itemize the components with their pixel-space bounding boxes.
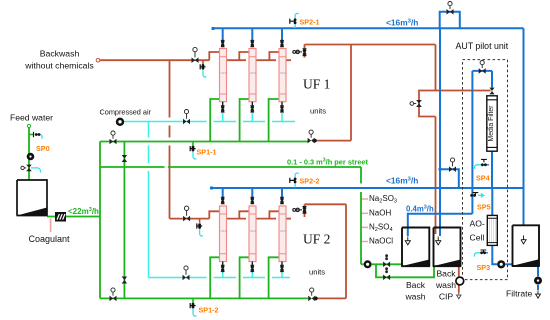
pink chemical tick N2SO4 (362, 226, 369, 228)
valve col3 UF2 bottom (280, 265, 283, 268)
svg-text:AO-: AO- (470, 219, 485, 229)
wire UF2 filtrate header (212, 187, 524, 189)
UF2 green-brown junction dot (314, 297, 318, 301)
crossing halo cyan-elbow1b (207, 276, 214, 279)
svg-text:SP1-2: SP1-2 (199, 306, 219, 315)
svg-text:UF3: UF3 (280, 229, 286, 233)
pump dosing (364, 260, 372, 268)
junction dot UF2 header start (210, 187, 213, 190)
valve col2 UF2 bottom (251, 265, 254, 268)
wire green vertical A (99, 142, 101, 299)
svg-text:Back: Back (436, 269, 456, 279)
wire feed water drop (28, 128, 30, 180)
svg-text:Cell: Cell (470, 233, 485, 243)
wire chemicals vertical (360, 167, 362, 264)
wire UF2 loop bottom link (316, 297, 346, 299)
wire branch down to UF2 (169, 60, 171, 218)
svg-text:SP5: SP5 (477, 203, 491, 212)
wire bypass jog (419, 91, 436, 117)
wire UF1 loop riser (304, 45, 306, 58)
valve col2 UF2 top (251, 197, 254, 200)
static mixer (55, 212, 66, 222)
valve col1 UF1 bottom (221, 106, 224, 109)
valve backwash main x195 (192, 47, 199, 63)
svg-text:<16m3/h: <16m3/h (386, 18, 418, 28)
stub col1 UF1 bottom (222, 102, 224, 106)
svg-text:units: units (309, 268, 325, 277)
svg-text:SP2-2: SP2-2 (300, 177, 320, 186)
svg-text:UF2: UF2 (250, 71, 256, 75)
junction dot header start (212, 27, 215, 30)
BLUE filtrate piping (212, 12, 539, 290)
svg-text:Filtrate: Filtrate (506, 289, 532, 299)
wire UF1 loop left edge (350, 45, 352, 141)
wire UF1 green manifold (100, 141, 308, 143)
pump filtrate drain (534, 277, 542, 285)
wire pump to filtrate tank (505, 263, 512, 265)
wire media filter bottom (491, 151, 493, 188)
svg-text:SP4: SP4 (476, 174, 490, 183)
svg-text:Compressed air: Compressed air (100, 108, 152, 117)
wire media filter top stub (491, 71, 493, 88)
sampling point SP1-1 (190, 142, 216, 159)
wire dosing pump line (361, 263, 402, 265)
sampling point backwash tap (200, 60, 206, 77)
wire UF1 green elbow col3 (269, 99, 279, 142)
wire CIP tank inlet tail (439, 234, 441, 236)
valve col3 UF2 top (280, 197, 283, 200)
UF2 column 3 (279, 206, 286, 262)
valve col1 UF2 top (221, 197, 224, 200)
svg-text:UF3: UF3 (280, 71, 286, 75)
pump CIP drain (456, 277, 464, 285)
wire AUT inner left vertical (471, 71, 473, 214)
wire backwash riser col1 (209, 52, 219, 60)
svg-text:UF2: UF2 (250, 229, 256, 233)
sampling point SP0 (29, 132, 50, 153)
wire AO-cell feed (491, 188, 493, 215)
wire UF2 loop riser (304, 204, 306, 217)
crossing halo green2-brown left gap (165, 165, 169, 168)
wire air stub col3 UF1 (281, 113, 283, 122)
UF1 column 3 (279, 49, 286, 102)
wire CIP drain lower (458, 285, 460, 293)
pink chemical tick Na2SO3 (362, 198, 369, 200)
tank inlet arrow CIP (436, 237, 441, 245)
pump compressor (116, 118, 124, 126)
drain arrow under CIP pump (457, 293, 461, 299)
pink chemical tick NaOCl (362, 241, 369, 243)
wire vertical to CIP tank (439, 28, 441, 234)
pump AO outlet (497, 260, 505, 268)
feed water inlet circle (27, 124, 30, 127)
valve col2 UF1 top (251, 40, 254, 43)
sampling point SP1-2 (190, 298, 218, 316)
wire air stub col2 UF2 (251, 272, 253, 278)
wire col1 UF2 top stub (222, 188, 224, 198)
svg-text:0.4m3/h: 0.4m3/h (406, 205, 434, 214)
tank inlet arrow backwash (405, 237, 410, 245)
junction dot AUT branch (439, 168, 442, 171)
wire UF2 loop top (305, 203, 347, 205)
wire UF2 green elbow col2 (240, 257, 249, 298)
sampling point feed tap cyan (31, 168, 40, 173)
svg-text:NaOCl: NaOCl (369, 237, 393, 246)
UF2 column 1 (220, 206, 227, 262)
wire uf1 col1-col2 riser (239, 52, 249, 60)
valve manifold3 x113 (110, 288, 117, 301)
valve green vertical B lower (122, 277, 128, 284)
valve dosing upper x386.6 (383, 254, 390, 267)
wire top filtrate header (213, 27, 524, 29)
stub col3 UF1 bottom (281, 102, 283, 106)
valve UF2 air line x186 (183, 266, 190, 280)
wire feed to verticals (66, 216, 100, 218)
svg-text:SP0: SP0 (36, 144, 50, 153)
sampling point SP3 (474, 250, 490, 272)
GREEN feed / chemicals piping (29, 99, 434, 298)
wire dosing branch to CIP (376, 264, 434, 277)
wire header bump (440, 12, 460, 28)
backwash tank (401, 228, 430, 267)
svg-text:wash: wash (404, 292, 425, 302)
valve col1 UF1 top (221, 40, 224, 43)
valve feed line x29 (21, 165, 32, 172)
wire AUT inlet branch (440, 169, 459, 188)
svg-text:NaOH: NaOH (369, 208, 391, 217)
wire air stub col1 UF1 (222, 113, 224, 122)
wire air stub col2 UF1 (251, 113, 253, 122)
UF2 column 2 (249, 206, 256, 262)
CYAN compressed air network (124, 113, 295, 278)
wire uf2 col1-col2 lower (227, 218, 247, 220)
wire uf1 col2-col3 riser (269, 52, 279, 60)
BROWN backwash/recirculation piping (100, 45, 491, 299)
svg-text:Na2SO3: Na2SO3 (369, 194, 397, 205)
wire UF1 green elbow col1 (210, 99, 219, 142)
UF1 column 2 (249, 49, 256, 102)
valve symbols (221, 40, 284, 271)
svg-text:SP3: SP3 (477, 263, 491, 272)
sampling point UF2 main tap (197, 219, 203, 236)
wire air drop vertical (148, 122, 150, 278)
wire col2 UF2 top stub (251, 188, 253, 198)
valve col3 UF1 top (280, 40, 283, 43)
svg-text:N2SO4: N2SO4 (369, 223, 393, 234)
wire air main UF2 (149, 277, 291, 279)
wire UF1 loop bottom link (315, 140, 351, 142)
svg-text:Back: Back (406, 280, 426, 290)
valve col2 UF1 bottom (251, 106, 254, 109)
wire UF1 loop top (305, 44, 436, 46)
svg-text:<22m3/h: <22m3/h (68, 207, 99, 216)
crossing halo brown-cyan (168, 117, 171, 125)
wire feed tank outlet (47, 216, 56, 218)
svg-text:CIP: CIP (439, 292, 454, 302)
svg-text:UF1: UF1 (221, 71, 227, 75)
valve UF2 main x186.6 (183, 206, 190, 221)
valve AUT inner top x482.2 (479, 61, 486, 74)
crossing halo cyan-elbow3a (265, 120, 272, 123)
wire air stub col3 UF2 (281, 272, 283, 278)
stub col3 UF2 bottom (281, 262, 283, 266)
wire backwash main (100, 59, 210, 61)
wire air main UF1 (124, 121, 295, 123)
wire UF1 green elbow col2 (240, 99, 249, 142)
wire UF2 green manifold (100, 297, 308, 299)
valve bypass jog x419 (410, 100, 422, 107)
svg-text:SP1-1: SP1-1 (197, 148, 217, 157)
wire uf2 col2-col3 riser (269, 211, 279, 218)
column connection stubs black (223, 102, 282, 266)
wire UF1 loop right edge upper (435, 45, 437, 91)
AO-Cell vessel (487, 215, 497, 245)
crossing halo greenvert-blue (359, 184, 362, 193)
wire green vertical B (123, 142, 125, 299)
wire UF2 main (170, 218, 210, 220)
wire UF2 green elbow col3 (269, 257, 279, 298)
wire filtrate tank drain (537, 266, 539, 276)
stub col2 UF2 bottom (251, 262, 253, 266)
valve header bump x450 (447, 2, 454, 15)
svg-text:UF 1: UF 1 (303, 77, 330, 92)
wire uf1 stub after col3 (287, 59, 292, 61)
valve air line x186.5 (183, 110, 190, 125)
svg-text:AUT pilot unit: AUT pilot unit (456, 41, 509, 51)
valve dosing lower x386.6 (383, 267, 390, 280)
valve green vertical B upper (122, 155, 128, 162)
wire uf1 col1-col2 lower (227, 59, 247, 61)
valve UF2 loop outlet x311.7 (308, 288, 315, 301)
sampling point SP4 (474, 159, 489, 182)
svg-text:without chemicals: without chemicals (24, 61, 94, 71)
valve col1 UF2 bottom (221, 265, 224, 268)
wire filtrate drain lower (537, 285, 539, 290)
svg-text:Backwash: Backwash (40, 49, 80, 59)
wire AUT inner top (472, 70, 492, 72)
valve media filter inlet (489, 88, 494, 95)
valve UF1 loop riser x304.5 (293, 49, 307, 56)
wire UF2 riser col1 (209, 211, 219, 218)
PINK coagulant line (50, 219, 52, 233)
sampling point SP2-1 (290, 13, 320, 28)
wire UF1 loop right edge lower to CIP tank (435, 117, 437, 235)
svg-text:Feed water: Feed water (10, 113, 53, 123)
crossing halo cyanvert-green1 (147, 138, 150, 146)
svg-text:UF 2: UF 2 (303, 232, 330, 247)
crossing halo cyan-elbow2a (236, 120, 243, 123)
UF1 green-brown junction dot (313, 139, 317, 143)
svg-text:units: units (310, 107, 326, 116)
valve UF2 loop riser x304.5 (293, 206, 307, 213)
wire uf2 col2-col3 lower (256, 218, 276, 220)
svg-text:Coagulant: Coagulant (29, 234, 71, 244)
backwash inlet circle (96, 58, 100, 62)
wire col1 UF1 top stub (222, 28, 224, 41)
wire CIP drain upper (458, 265, 460, 277)
stub col1 UF2 bottom (222, 262, 224, 266)
wire backwash tank inlet tail (407, 228, 409, 237)
crossing halo cyan-elbow3b (265, 276, 272, 279)
svg-text:wash: wash (435, 280, 456, 290)
svg-text:0.1 - 0.3 m3/h per street: 0.1 - 0.3 m3/h per street (287, 158, 368, 167)
sampling point SP2-2 (290, 173, 320, 188)
wire AO-cell outlet (492, 246, 497, 265)
svg-text:Media Filter: Media Filter (488, 105, 495, 142)
AUT pilot unit dashed box (463, 60, 508, 280)
drain arrow under filtrate pump (536, 291, 541, 299)
wire UF2 loop right edge (345, 204, 347, 298)
valve UF1 loop outlet x311 (308, 130, 315, 143)
wire col3 UF2 top stub (281, 188, 283, 198)
sampling point SP5 (470, 193, 490, 212)
crossing halo cyan-elbow1a (207, 120, 214, 123)
valve manifold1 x113 (110, 131, 117, 144)
wire right edge down to filtrate tank (523, 28, 525, 225)
wire air stub col1 UF2 (222, 272, 224, 278)
svg-text:UF1: UF1 (221, 229, 227, 233)
wire backwash 0.4 line (408, 214, 473, 228)
svg-text:SP2-1: SP2-1 (300, 18, 320, 27)
filtrate tank (512, 225, 540, 266)
wire col3 UF1 top stub (281, 28, 283, 41)
UF1 column 1 (220, 49, 227, 102)
backwash CIP tank (433, 228, 462, 267)
wire uf1 col2-col3 lower (256, 59, 276, 61)
wire uf2 stub after col3 (287, 218, 292, 220)
crossing halo brown-green1 (168, 137, 171, 145)
wire red feed to media filter (436, 90, 491, 92)
valve col3 UF1 bottom (280, 106, 283, 109)
media filter vessel (487, 96, 497, 151)
tank inlet arrow filtrate (521, 236, 526, 244)
feed water tank (17, 180, 48, 216)
pump feed water (27, 153, 35, 161)
crossing halo cyanvert-green2 (147, 163, 150, 171)
wire UF2 green elbow col1 (210, 257, 219, 298)
valve AUT branch x452.5 (449, 158, 456, 172)
pink chemical tick NaOH (362, 212, 369, 214)
wire street manifold (100, 166, 361, 168)
wire col2 UF1 top stub (251, 28, 253, 41)
svg-text:<16m3/h: <16m3/h (386, 176, 418, 186)
stub col2 UF1 bottom (251, 102, 253, 106)
crossing halo cyan-elbow2b (236, 276, 243, 279)
wire uf2 col1-col2 riser (239, 211, 249, 218)
